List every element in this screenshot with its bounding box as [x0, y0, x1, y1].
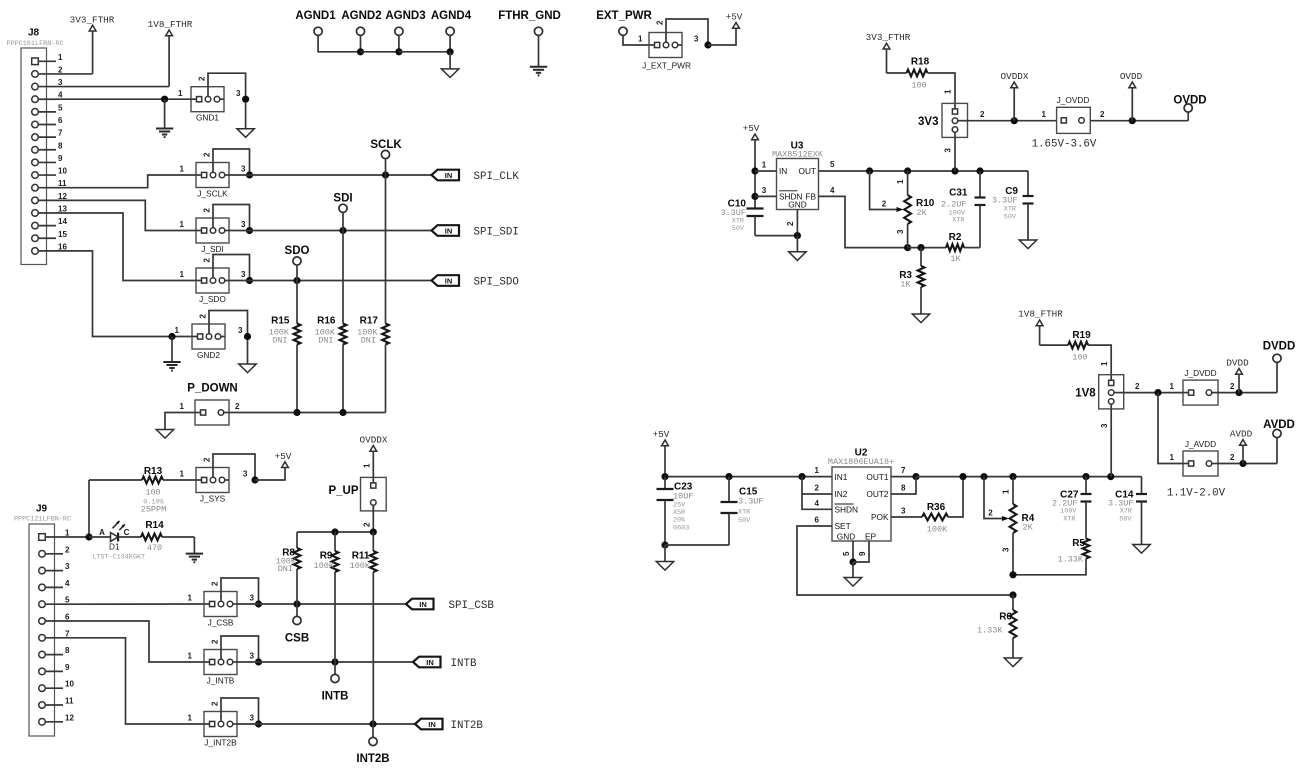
- capacitor C31 2.2UF: [941, 171, 986, 248]
- svg-text:1K: 1K: [900, 280, 911, 290]
- svg-text:2: 2: [1100, 110, 1105, 119]
- node AGND4: [431, 10, 472, 55]
- svg-text:1: 1: [762, 161, 767, 170]
- svg-text:2: 2: [198, 76, 207, 81]
- svg-text:9: 9: [65, 663, 70, 672]
- svg-text:14: 14: [58, 217, 67, 226]
- wire SPI_SDO net: [229, 277, 432, 284]
- svg-text:470: 470: [147, 543, 162, 553]
- svg-text:6: 6: [815, 516, 820, 525]
- svg-text:2: 2: [363, 522, 372, 527]
- svg-text:IN: IN: [419, 600, 427, 609]
- svg-text:PPPC161LFBN-RC: PPPC161LFBN-RC: [6, 40, 63, 48]
- ground (earth) FTHR_GND: [530, 67, 547, 76]
- svg-text:1: 1: [896, 179, 905, 184]
- capacitor C27 2.2UF: [1052, 477, 1092, 539]
- svg-text:1.33K: 1.33K: [977, 626, 1003, 636]
- ground (triangle) at GND2 pin3: [239, 340, 256, 373]
- svg-text:DNI: DNI: [272, 336, 287, 346]
- capacitor C10 3.3UF: [720, 199, 763, 236]
- svg-text:10UF: 10UF: [673, 492, 693, 502]
- svg-text:1: 1: [178, 89, 183, 98]
- svg-text:2K: 2K: [1023, 523, 1034, 533]
- wire P_UP pin2: [363, 505, 374, 532]
- svg-text:DNI: DNI: [278, 564, 293, 574]
- svg-text:1: 1: [188, 652, 193, 661]
- ground (triangle) C14: [1133, 545, 1150, 554]
- svg-text:2: 2: [656, 20, 665, 25]
- resistor R15 100K DNI: [269, 281, 301, 413]
- node CSB: [285, 604, 309, 645]
- resistor R3 1K: [899, 248, 924, 314]
- svg-text:3: 3: [250, 714, 255, 723]
- svg-text:J_SYS: J_SYS: [200, 494, 226, 504]
- svg-text:3: 3: [238, 326, 243, 335]
- svg-text:INT2B: INT2B: [356, 753, 389, 765]
- svg-text:GND2: GND2: [197, 350, 220, 360]
- svg-text:1V8: 1V8: [1075, 388, 1096, 400]
- resistor R5 1.33K: [1009, 538, 1089, 578]
- wire U2 pin8 OUT2: [891, 477, 916, 494]
- svg-text:INTB: INTB: [451, 658, 477, 670]
- resistor R19 100: [1040, 330, 1112, 380]
- svg-text:3.3UF: 3.3UF: [738, 497, 764, 507]
- svg-text:1: 1: [180, 220, 185, 229]
- svg-text:+5V: +5V: [653, 429, 670, 440]
- svg-text:IN2: IN2: [835, 489, 848, 499]
- svg-text:2K: 2K: [917, 208, 928, 218]
- svg-text:3.3UF: 3.3UF: [992, 196, 1018, 206]
- svg-text:1: 1: [363, 463, 372, 468]
- svg-text:3: 3: [1100, 423, 1109, 428]
- wire 1V8 pin3 to output rail: [1100, 409, 1111, 477]
- wire 3V3 pin2 to J_OVDD: [968, 110, 1057, 124]
- IC U3 MAX8512EXK: [772, 141, 824, 210]
- svg-text:AVDD: AVDD: [1230, 429, 1253, 440]
- node INT2B: [356, 724, 389, 765]
- wire 3V3 pin3 to OUT rail: [944, 137, 956, 171]
- svg-text:2: 2: [65, 545, 70, 554]
- svg-text:OVDDX: OVDDX: [1001, 71, 1029, 82]
- svg-text:3: 3: [243, 470, 248, 479]
- resistor R14 470: [141, 520, 194, 553]
- wire J9 pin1 node: [63, 533, 93, 540]
- node INTB: [322, 662, 349, 703]
- svg-text:25PPM: 25PPM: [141, 505, 167, 515]
- node AGND1: [295, 10, 360, 52]
- svg-text:R16: R16: [317, 316, 336, 327]
- svg-text:IN: IN: [445, 171, 453, 180]
- svg-text:2: 2: [882, 200, 887, 209]
- power flag 1V8_FTHR: [148, 19, 193, 86]
- svg-text:J_INTB: J_INTB: [207, 676, 235, 686]
- wire 1V8 pin2 to J_DVDD: [1124, 382, 1183, 396]
- node SCLK: [370, 139, 402, 175]
- svg-text:DNI: DNI: [318, 336, 333, 346]
- node SDO: [285, 245, 310, 281]
- svg-text:GND: GND: [837, 532, 855, 542]
- svg-text:1: 1: [175, 326, 180, 335]
- svg-text:J_OVDD: J_OVDD: [1057, 95, 1090, 105]
- power flag OVDD (small): [1120, 71, 1143, 121]
- svg-text:2: 2: [815, 484, 820, 493]
- svg-text:+5V: +5V: [275, 451, 292, 462]
- svg-text:POK: POK: [871, 512, 889, 522]
- svg-text:5: 5: [842, 551, 851, 556]
- wire SPI_SDI net: [229, 227, 432, 234]
- svg-text:50V: 50V: [1119, 516, 1132, 524]
- svg-text:OUT2: OUT2: [866, 489, 889, 499]
- svg-text:C: C: [124, 528, 130, 537]
- capacitor C9 3.3UF: [992, 171, 1034, 240]
- svg-text:IN: IN: [779, 166, 787, 176]
- wire J_DVDD pin2 to DVDD: [1218, 389, 1277, 396]
- capacitor C15 3.3UF: [721, 477, 764, 545]
- svg-text:J_INT2B: J_INT2B: [204, 738, 237, 748]
- svg-text:OVDDX: OVDDX: [360, 435, 388, 446]
- svg-text:2: 2: [1230, 382, 1235, 391]
- svg-text:3: 3: [1002, 547, 1011, 552]
- svg-text:1: 1: [188, 594, 193, 603]
- svg-text:IN: IN: [445, 227, 453, 236]
- svg-text:2: 2: [203, 457, 212, 462]
- svg-text:OUT: OUT: [798, 166, 816, 176]
- svg-text:1.1V-2.0V: 1.1V-2.0V: [1167, 488, 1226, 500]
- svg-text:D1: D1: [109, 542, 120, 552]
- svg-text:R6: R6: [999, 612, 1012, 623]
- ground (triangle) at AGND4: [441, 52, 458, 78]
- svg-text:100: 100: [911, 81, 926, 91]
- svg-text:P_UP: P_UP: [328, 485, 358, 497]
- ground (earth) at GND1 pin1: [156, 99, 173, 137]
- svg-text:3V3_FTHR: 3V3_FTHR: [70, 15, 115, 26]
- svg-text:1: 1: [180, 470, 185, 479]
- wire J8 pin3 to 1V8_FTHR: [56, 86, 169, 88]
- svg-text:FB: FB: [805, 192, 816, 202]
- jumper J_SCLK: [180, 149, 254, 199]
- svg-text:100K: 100K: [314, 561, 335, 571]
- wire U2 pin4 SHDN: [802, 494, 832, 509]
- svg-text:1: 1: [180, 402, 185, 411]
- svg-text:LTST-C194KGKT: LTST-C194KGKT: [92, 554, 145, 562]
- connector J9 PPPC121LFBN-RC: [14, 504, 75, 737]
- svg-text:3: 3: [694, 35, 699, 44]
- svg-text:4: 4: [815, 499, 820, 508]
- wire pull-up rail: [297, 528, 377, 535]
- svg-text:1: 1: [1100, 361, 1109, 366]
- wire INTB net: [237, 658, 413, 665]
- svg-text:2: 2: [199, 314, 208, 319]
- svg-text:3: 3: [901, 507, 906, 516]
- svg-text:1: 1: [638, 35, 643, 44]
- svg-text:1.65V-3.6V: 1.65V-3.6V: [1032, 139, 1097, 151]
- node AGND2: [341, 10, 381, 55]
- wire J_SYS pin3 to +5V: [255, 468, 285, 481]
- svg-text:3.3UF: 3.3UF: [720, 208, 746, 218]
- jumper P_DOWN: [180, 383, 240, 426]
- svg-text:MAX1806EUA18+: MAX1806EUA18+: [828, 457, 894, 467]
- wire U2 output rail: [916, 473, 1142, 480]
- svg-text:6: 6: [58, 116, 63, 125]
- svg-text:SDI: SDI: [333, 193, 352, 205]
- wire U3 pin3 SHDN: [755, 186, 777, 196]
- power flag 3V3_FTHR (R18): [866, 32, 911, 73]
- svg-text:R15: R15: [271, 316, 290, 327]
- power flag AVDD (small): [1230, 429, 1253, 464]
- svg-text:1.33K: 1.33K: [1057, 555, 1083, 565]
- svg-text:3: 3: [241, 165, 246, 174]
- svg-text:SPI_SDI: SPI_SDI: [474, 227, 519, 239]
- svg-text:2: 2: [1135, 382, 1140, 391]
- svg-text:SHDN: SHDN: [835, 505, 859, 515]
- resistor R18 100: [887, 57, 956, 109]
- svg-text:2: 2: [786, 221, 795, 226]
- svg-text:12: 12: [65, 713, 74, 722]
- node EXT_PWR: [596, 10, 652, 45]
- wire C23 bottom node: [661, 541, 729, 548]
- svg-text:100: 100: [145, 488, 160, 498]
- svg-text:1: 1: [1042, 110, 1047, 119]
- svg-text:7: 7: [901, 466, 906, 475]
- svg-text:3V3_FTHR: 3V3_FTHR: [866, 32, 911, 43]
- resistor R8 100K DNI: [276, 532, 301, 604]
- svg-text:DVDD: DVDD: [1226, 358, 1249, 369]
- power flag +5V (J_SYS): [275, 451, 292, 468]
- svg-text:SPI_CSB: SPI_CSB: [449, 600, 495, 612]
- svg-text:20%: 20%: [673, 517, 686, 525]
- wire J8 pin12 to J_SDI pin1: [56, 200, 196, 230]
- svg-text:1: 1: [815, 466, 820, 475]
- svg-text:2: 2: [980, 110, 985, 119]
- resistor R6 1.33K: [977, 595, 1016, 658]
- wire P_DOWN pin2 net: [229, 409, 386, 416]
- wire J8 pin16 to GND2 pin1: [56, 251, 192, 340]
- svg-text:50V: 50V: [732, 225, 745, 233]
- wire INT2B net: [237, 720, 415, 727]
- svg-text:GND1: GND1: [196, 113, 219, 123]
- wire AGND2-AGND3: [361, 51, 399, 53]
- wire J9 pin5 to J_CSB pin1: [63, 603, 204, 605]
- wire J8 pin2 to 3V3_FTHR: [56, 73, 93, 75]
- jumper 1V8: [1075, 375, 1123, 409]
- node OVDD: [1173, 95, 1206, 121]
- svg-text:2: 2: [1230, 453, 1235, 462]
- svg-text:4: 4: [65, 579, 70, 588]
- svg-text:R18: R18: [911, 57, 930, 68]
- ground (triangle) U2: [844, 562, 861, 586]
- svg-text:A: A: [99, 528, 105, 537]
- svg-text:CSB: CSB: [285, 633, 309, 645]
- svg-text:R17: R17: [360, 316, 379, 327]
- power flag DVDD (small): [1226, 358, 1249, 393]
- svg-text:3: 3: [65, 562, 70, 571]
- svg-text:AGND4: AGND4: [431, 10, 472, 22]
- svg-text:1: 1: [180, 270, 185, 279]
- svg-text:2: 2: [203, 258, 212, 263]
- power flag 3V3_FTHR: [70, 15, 115, 74]
- node AGND3: [385, 10, 425, 55]
- wire SPI_CSB net: [237, 600, 406, 607]
- svg-text:XTR: XTR: [1063, 516, 1075, 524]
- power flag +5V (U2): [653, 429, 670, 477]
- wire J8 pin11 to J_SCLK pin1: [56, 175, 196, 188]
- svg-text:15: 15: [58, 230, 67, 239]
- svg-text:AGND3: AGND3: [385, 10, 425, 22]
- jumper GND2: [175, 311, 252, 361]
- node SDI: [333, 193, 352, 231]
- svg-text:SPI_CLK: SPI_CLK: [474, 171, 520, 183]
- svg-text:IN: IN: [428, 720, 436, 729]
- svg-text:3: 3: [250, 652, 255, 661]
- node DVDD: [1263, 341, 1296, 393]
- svg-text:SCLK: SCLK: [370, 139, 402, 151]
- wire U2 pin1 IN1: [815, 466, 820, 475]
- svg-text:J_SDO: J_SDO: [199, 294, 226, 304]
- svg-text:3: 3: [762, 186, 767, 195]
- jumper J_EXT_PWR: [642, 19, 712, 71]
- resistor R11 100K: [350, 532, 377, 724]
- svg-text:IN: IN: [445, 277, 453, 286]
- wire to J_AVDD pin1: [1158, 393, 1183, 464]
- jumper 3V3: [918, 103, 967, 137]
- svg-text:10: 10: [58, 167, 67, 176]
- wire U3 pin2 GND: [786, 210, 801, 240]
- svg-text:MAX8512EXK: MAX8512EXK: [772, 150, 824, 160]
- svg-text:+5V: +5V: [726, 12, 743, 23]
- potentiometer R4 2K: [984, 477, 1035, 575]
- flag IN SPI_SDO: [432, 275, 519, 288]
- svg-text:1: 1: [944, 89, 953, 94]
- power flag +5V (U3): [743, 123, 760, 171]
- svg-text:R11: R11: [352, 551, 370, 562]
- resistor R36 100K (POK): [891, 477, 963, 535]
- wire J9 pin7 to J_INT2B pin1: [63, 638, 204, 724]
- svg-text:X7R: X7R: [1120, 508, 1132, 516]
- svg-text:XTR: XTR: [1004, 206, 1016, 214]
- wire U3 pin4 FB: [819, 186, 912, 251]
- connector J8 PPPC161LFBN-RC: [6, 28, 67, 265]
- ground (earth) at R14: [186, 537, 203, 562]
- wire U2 pin6 SET: [797, 516, 1017, 599]
- wire J9 pin6 to J_INTB pin1: [63, 621, 204, 662]
- capacitor C14 3.3UF: [1108, 477, 1147, 545]
- svg-text:PPPC121LFBN-RC: PPPC121LFBN-RC: [14, 516, 71, 524]
- svg-text:P_DOWN: P_DOWN: [187, 383, 237, 395]
- flag IN SPI_CLK: [432, 170, 520, 183]
- wire J8 pin13 to J_SDO pin1: [56, 213, 196, 281]
- svg-text:5: 5: [830, 160, 835, 169]
- svg-text:1K: 1K: [950, 254, 961, 264]
- jumper J_OVDD: [1042, 95, 1105, 133]
- potentiometer R10 2K: [870, 171, 935, 248]
- svg-text:SET: SET: [835, 521, 851, 531]
- svg-text:50V: 50V: [1004, 214, 1017, 222]
- wire U2 pin2 IN2: [802, 477, 832, 494]
- wire J9 pin1 riser: [88, 480, 90, 537]
- jumper J_AVDD: [1183, 439, 1218, 476]
- resistor R17 100K DNI: [357, 175, 389, 413]
- ground (triangle) at P_DOWN pin1: [156, 430, 173, 439]
- svg-text:2: 2: [211, 581, 220, 586]
- svg-text:R36: R36: [927, 502, 946, 513]
- wire +5V to U3 pins: [751, 167, 758, 208]
- svg-text:R2: R2: [949, 232, 962, 243]
- wire U2 pin7 OUT1: [891, 466, 920, 480]
- svg-text:10: 10: [65, 680, 74, 689]
- label 1.1V-2.0V: [1167, 488, 1226, 500]
- LED D1 LTST-C194KGKT: [89, 521, 145, 562]
- svg-text:100: 100: [1072, 353, 1087, 363]
- ground (triangle) at GND1 pin3: [237, 103, 254, 138]
- svg-text:J_CSB: J_CSB: [208, 618, 234, 628]
- svg-text:DNI: DNI: [361, 336, 376, 346]
- svg-text:AGND1: AGND1: [295, 10, 336, 22]
- wire U3 OUT rail: [819, 160, 1029, 175]
- svg-text:3V3: 3V3: [918, 116, 938, 128]
- svg-text:XTR: XTR: [738, 509, 750, 517]
- jumper P_UP: [328, 477, 386, 511]
- svg-text:100K: 100K: [350, 561, 371, 571]
- flag IN INT2B: [415, 719, 483, 732]
- svg-text:3: 3: [250, 594, 255, 603]
- svg-text:1: 1: [58, 53, 63, 62]
- wire U2 pin5 GND: [842, 541, 857, 566]
- svg-text:2: 2: [211, 639, 220, 644]
- svg-text:1: 1: [180, 165, 185, 174]
- svg-text:2: 2: [203, 208, 212, 213]
- svg-text:2.2UF: 2.2UF: [941, 200, 967, 210]
- svg-text:2: 2: [235, 402, 240, 411]
- svg-text:FTHR_GND: FTHR_GND: [498, 10, 561, 22]
- flag IN SPI_SDI: [432, 225, 519, 238]
- wire +5V input rail: [661, 473, 832, 480]
- svg-text:1: 1: [1170, 453, 1175, 462]
- svg-text:3: 3: [896, 229, 905, 234]
- wire U2 pin9 EP: [853, 541, 869, 562]
- svg-text:+5V: +5V: [743, 123, 760, 134]
- jumper J_DVDD: [1170, 368, 1235, 405]
- svg-text:J_EXT_PWR: J_EXT_PWR: [642, 61, 691, 71]
- jumper J_SDI: [180, 205, 254, 255]
- resistor R16 100K DNI: [315, 231, 347, 413]
- svg-text:R9: R9: [320, 551, 333, 562]
- resistor R9 100K: [314, 532, 339, 662]
- wire C10 to U3 GND: [755, 235, 797, 237]
- ground (triangle) U3 GND: [789, 236, 806, 261]
- svg-text:EP: EP: [865, 532, 877, 542]
- svg-text:GND: GND: [788, 200, 806, 210]
- svg-text:INTB: INTB: [322, 691, 349, 703]
- flag IN INTB: [413, 657, 477, 670]
- ground (earth) at GND2 pin1: [163, 337, 180, 371]
- wire J_EXT_PWR pin3 to +5V: [708, 28, 736, 45]
- wire U3 pin1 IN: [755, 161, 777, 172]
- svg-text:7: 7: [58, 129, 63, 138]
- svg-text:9: 9: [58, 154, 63, 163]
- svg-text:OVDD: OVDD: [1120, 71, 1143, 82]
- svg-text:AGND2: AGND2: [341, 10, 381, 22]
- svg-text:R5: R5: [1072, 538, 1085, 549]
- svg-text:8: 8: [65, 646, 70, 655]
- svg-text:50V: 50V: [738, 517, 751, 525]
- svg-text:J9: J9: [36, 504, 48, 515]
- wire AGND3-AGND4: [399, 51, 450, 53]
- label 1.65V-3.6V: [1032, 139, 1097, 151]
- wire J_AVDD pin2 to AVDD: [1218, 453, 1277, 467]
- svg-text:3: 3: [236, 89, 241, 98]
- node AVDD: [1263, 419, 1295, 464]
- svg-text:1: 1: [1002, 489, 1011, 494]
